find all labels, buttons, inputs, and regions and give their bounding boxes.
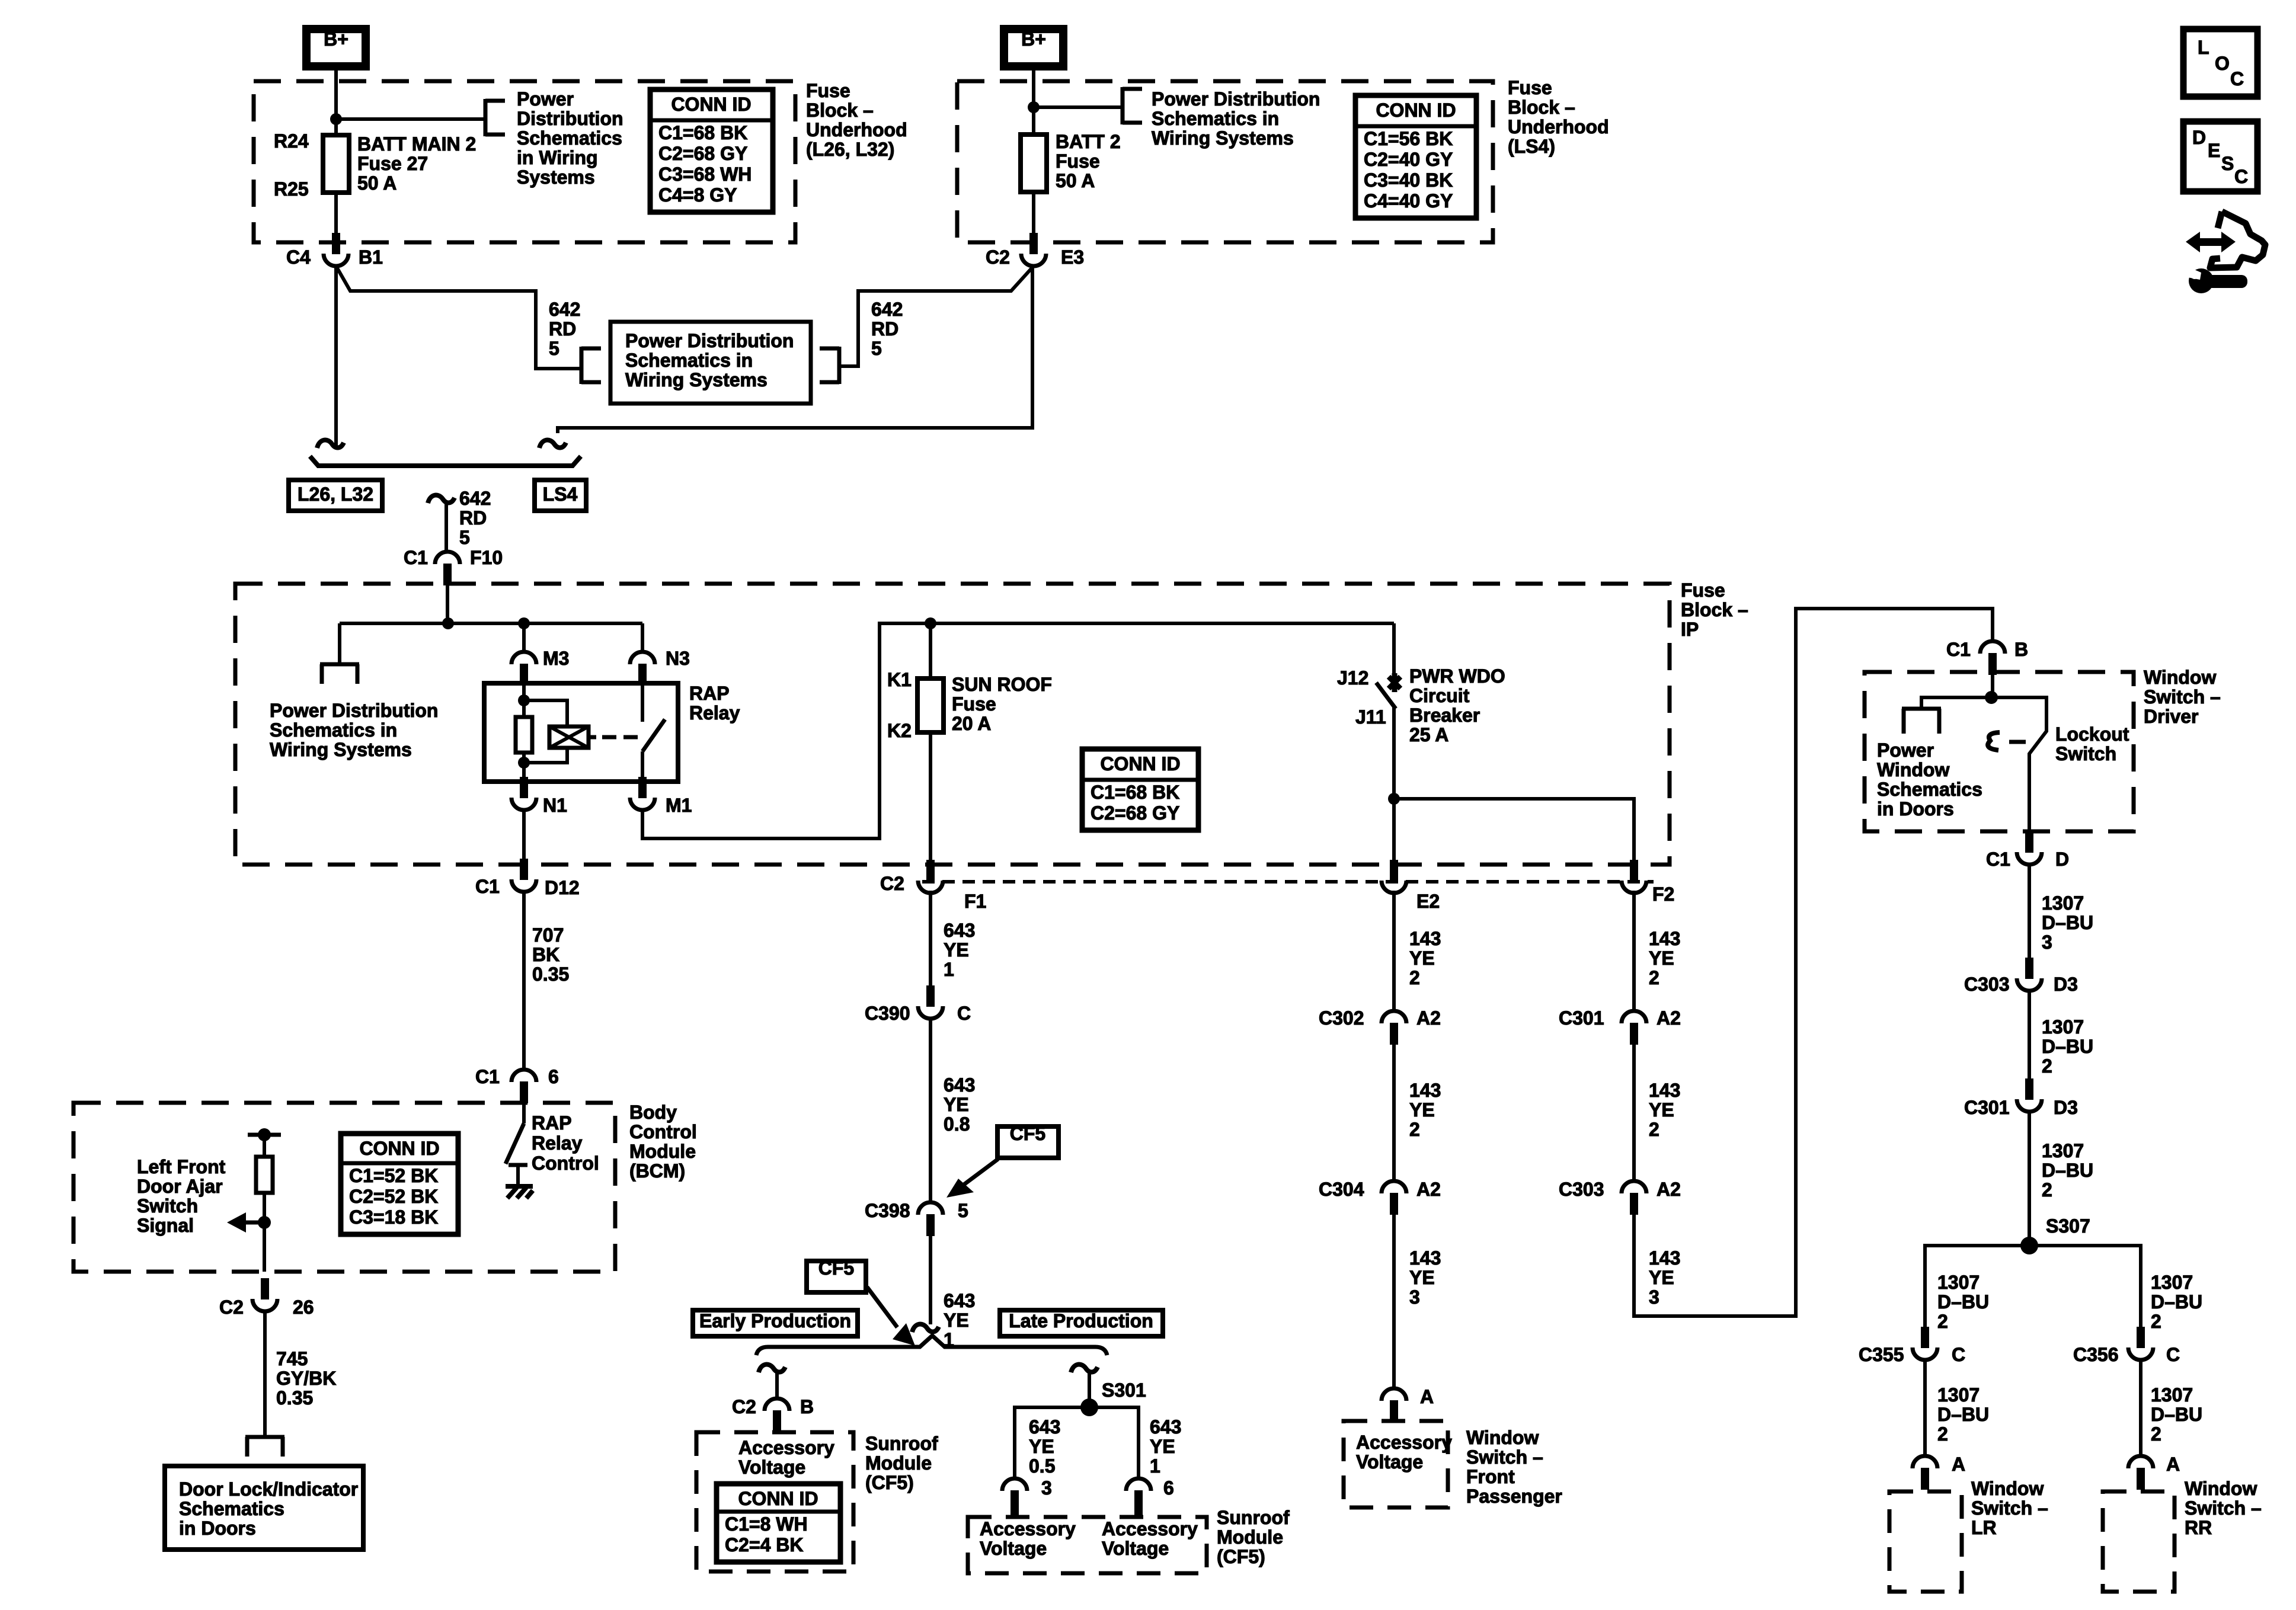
power symbol B+ (right) xyxy=(1004,29,1063,66)
svg-text:E2: E2 xyxy=(1416,891,1440,912)
svg-text:A2: A2 xyxy=(1657,1007,1681,1029)
svg-text:643: 643 xyxy=(1029,1416,1060,1438)
svg-text:Switch –: Switch – xyxy=(1466,1446,1543,1468)
svg-text:RAP: RAP xyxy=(689,683,730,704)
window switch RR dashed box xyxy=(2103,1491,2175,1592)
svg-text:CONN ID: CONN ID xyxy=(1376,100,1456,121)
svg-text:L: L xyxy=(2198,37,2209,58)
relay coil wire xyxy=(522,683,526,719)
connector C1 / D12 xyxy=(520,859,528,880)
svg-text:C303: C303 xyxy=(1559,1179,1604,1200)
svg-text:K2: K2 xyxy=(887,720,912,741)
harness hook (late branch) xyxy=(1071,1365,1098,1372)
svg-text:YE: YE xyxy=(1409,1099,1435,1121)
connector pin A (LR) xyxy=(1913,1456,1937,1468)
wire 745 GY/BK xyxy=(263,1310,267,1435)
svg-text:3: 3 xyxy=(1409,1286,1420,1308)
svg-text:Window: Window xyxy=(1877,759,1949,780)
connector C1 / B xyxy=(1980,641,2005,654)
svg-text:Window: Window xyxy=(1971,1478,2044,1499)
svg-text:C: C xyxy=(1952,1344,1965,1365)
svg-text:Schematics: Schematics xyxy=(1877,779,1982,800)
svg-text:RD: RD xyxy=(459,507,487,529)
svg-text:RAP: RAP xyxy=(532,1112,572,1134)
svg-text:Sunroof: Sunroof xyxy=(865,1433,938,1454)
wire C398 to production split xyxy=(929,1236,932,1324)
svg-text:1307: 1307 xyxy=(2042,892,2084,914)
wire C356 to RR switch xyxy=(2139,1359,2142,1456)
svg-text:1: 1 xyxy=(944,959,954,980)
svg-text:Accessory: Accessory xyxy=(1356,1432,1452,1453)
wire M1 to right IP bus xyxy=(642,623,1394,838)
svg-text:C3=68 WH: C3=68 WH xyxy=(658,164,752,185)
svg-text:S301: S301 xyxy=(1102,1379,1146,1401)
svg-text:(LS4): (LS4) xyxy=(1508,136,1555,157)
svg-text:Block –: Block – xyxy=(1681,599,1748,620)
navigation icon (wrench) xyxy=(2189,268,2214,293)
wire C304 to window switch front passenger xyxy=(1392,1215,1396,1388)
svg-text:Power Distribution: Power Distribution xyxy=(1152,88,1320,110)
lockout switch xyxy=(1991,697,2046,830)
svg-text:C: C xyxy=(2166,1344,2180,1365)
wire N1 to C1/D12 xyxy=(522,809,526,860)
fuse SUN ROOF 20A xyxy=(917,678,944,732)
svg-text:A2: A2 xyxy=(1416,1007,1441,1029)
relay mechanical link dashes xyxy=(602,735,616,740)
svg-text:2: 2 xyxy=(2042,1055,2052,1077)
svg-text:B1: B1 xyxy=(359,247,383,268)
svg-text:C2=40 GY: C2=40 GY xyxy=(1364,149,1453,170)
connector M1 xyxy=(638,777,647,798)
wire fuse to C4 xyxy=(334,193,338,244)
svg-text:2: 2 xyxy=(2151,1423,2161,1445)
svg-text:Schematics in: Schematics in xyxy=(1152,108,1279,129)
connector C4 / B1 xyxy=(332,233,340,254)
connector C398 / 5 xyxy=(918,1202,943,1215)
BCM CONN ID table xyxy=(341,1134,458,1234)
circuit breaker blade xyxy=(1376,683,1396,709)
svg-text:C1: C1 xyxy=(475,1066,500,1087)
svg-text:RD: RD xyxy=(549,318,576,340)
svg-text:2: 2 xyxy=(1937,1423,1948,1445)
navigation icon (double arrow) xyxy=(2198,238,2224,246)
svg-text:F1: F1 xyxy=(964,891,986,912)
svg-text:C1=68 BK: C1=68 BK xyxy=(658,122,747,143)
svg-text:C2: C2 xyxy=(732,1396,756,1417)
svg-text:143: 143 xyxy=(1649,1080,1680,1101)
power symbol B+ (left) xyxy=(306,29,366,66)
svg-text:1307: 1307 xyxy=(1937,1384,1980,1406)
svg-text:CF5: CF5 xyxy=(1010,1123,1045,1144)
svg-text:Fuse: Fuse xyxy=(1681,580,1725,601)
svg-text:O: O xyxy=(2215,53,2230,74)
node junction below B+ left xyxy=(330,113,342,125)
svg-text:6: 6 xyxy=(548,1066,559,1087)
svg-text:Accessory: Accessory xyxy=(1102,1518,1198,1539)
arrow left front door ajar switch signal xyxy=(244,1221,264,1225)
svg-text:2: 2 xyxy=(2151,1311,2161,1332)
svg-text:M3: M3 xyxy=(543,648,569,669)
svg-text:1307: 1307 xyxy=(2042,1016,2084,1038)
sunroof module (CF5) dashed box (early) xyxy=(696,1432,853,1571)
fuse block underhood (L26,L32) dashed box xyxy=(254,81,795,242)
svg-text:C390: C390 xyxy=(865,1003,910,1024)
relay resistor xyxy=(516,717,532,753)
svg-text:Power Distribution: Power Distribution xyxy=(625,330,794,351)
svg-text:LS4: LS4 xyxy=(543,484,578,505)
svg-text:2: 2 xyxy=(1649,1119,1659,1140)
svg-text:Front: Front xyxy=(1466,1466,1515,1487)
svg-text:A2: A2 xyxy=(1657,1179,1681,1200)
svg-text:D3: D3 xyxy=(2054,974,2078,995)
svg-text:143: 143 xyxy=(1649,928,1680,949)
wire C301 to C303 xyxy=(1632,1045,1636,1181)
svg-text:F2: F2 xyxy=(1652,884,1674,905)
svg-text:J11: J11 xyxy=(1355,706,1386,728)
svg-text:Lockout: Lockout xyxy=(2055,724,2129,745)
svg-text:IP: IP xyxy=(1681,619,1699,640)
connector pin A (front passenger) xyxy=(1382,1388,1406,1401)
svg-text:Left Front: Left Front xyxy=(137,1156,226,1177)
connector C2 / F1 xyxy=(926,860,935,881)
svg-text:143: 143 xyxy=(1409,1080,1441,1101)
bracket into power distribution box (left) xyxy=(580,347,584,384)
svg-text:5: 5 xyxy=(871,338,882,359)
svg-text:A2: A2 xyxy=(1416,1179,1441,1200)
svg-text:SUN ROOF: SUN ROOF xyxy=(952,674,1052,695)
svg-text:C1=56 BK: C1=56 BK xyxy=(1364,128,1453,149)
svg-text:RD: RD xyxy=(871,318,898,340)
svg-text:YE: YE xyxy=(1649,1267,1674,1288)
svg-text:in Wiring: in Wiring xyxy=(517,147,598,168)
harness hook (center bottom) xyxy=(912,1324,939,1332)
svg-text:C2=68 GY: C2=68 GY xyxy=(1091,802,1179,824)
svg-text:3: 3 xyxy=(1041,1477,1052,1499)
wire fuse to C2 (right) xyxy=(1032,192,1035,244)
svg-text:R24: R24 xyxy=(274,130,309,152)
bracket to Power Distribution Schematics (left underhood) xyxy=(484,99,488,136)
BCM dashed box xyxy=(73,1103,615,1272)
harness hook (output) xyxy=(428,495,455,503)
bracket into door lock schematics xyxy=(245,1435,284,1439)
svg-text:Voltage: Voltage xyxy=(1356,1451,1423,1473)
svg-text:S307: S307 xyxy=(2046,1215,2090,1237)
svg-text:CONN ID: CONN ID xyxy=(671,94,751,115)
svg-text:K1: K1 xyxy=(887,669,912,690)
svg-text:C4=8 GY: C4=8 GY xyxy=(658,184,737,206)
svg-text:D–BU: D–BU xyxy=(2042,1036,2093,1057)
svg-text:Door Ajar: Door Ajar xyxy=(137,1176,223,1197)
CF5 arrow (upper) xyxy=(963,1159,998,1185)
bracket to Power Distribution Schematics (right underhood) xyxy=(1121,87,1125,124)
svg-text:CF5: CF5 xyxy=(818,1257,854,1279)
svg-text:C1: C1 xyxy=(475,876,500,897)
connector M3 xyxy=(511,652,536,664)
accessory voltage dashed box (front passenger) xyxy=(1344,1421,1448,1507)
wire C2/E3 down and left to harness xyxy=(558,266,1032,433)
connector E2 xyxy=(1390,860,1398,881)
svg-text:2: 2 xyxy=(1409,967,1420,988)
fuse block IP dashed box xyxy=(235,584,1670,865)
svg-text:Wiring Systems: Wiring Systems xyxy=(1152,127,1294,149)
wire F1 to C390 xyxy=(929,891,932,986)
wire bus to SUN ROOF fuse xyxy=(929,623,932,678)
svg-text:Distribution: Distribution xyxy=(517,108,623,129)
ground (BCM) xyxy=(506,1186,533,1198)
svg-text:Sunroof: Sunroof xyxy=(1217,1507,1290,1528)
wire bus to circuit breaker xyxy=(1392,623,1396,677)
svg-text:Module: Module xyxy=(629,1141,696,1162)
svg-text:B: B xyxy=(2014,639,2028,660)
svg-text:C355: C355 xyxy=(1859,1344,1904,1365)
svg-text:C2=52 BK: C2=52 BK xyxy=(349,1186,438,1207)
CONN ID table (underhood left) xyxy=(650,89,773,212)
svg-text:2: 2 xyxy=(2042,1179,2052,1201)
svg-text:Door Lock/Indicator: Door Lock/Indicator xyxy=(179,1478,358,1500)
svg-text:3: 3 xyxy=(1649,1286,1659,1308)
svg-text:Switch –: Switch – xyxy=(2185,1497,2262,1519)
connector C303 / D3 xyxy=(2025,958,2033,979)
svg-text:Fuse: Fuse xyxy=(1056,151,1100,172)
connector C356 / C xyxy=(2137,1327,2145,1348)
svg-text:R25: R25 xyxy=(274,178,309,200)
harness hook (left) xyxy=(317,440,344,448)
wire B+ to fuse (right) xyxy=(1032,71,1035,135)
svg-text:Relay: Relay xyxy=(689,702,740,724)
svg-text:YE: YE xyxy=(1409,948,1435,969)
bracket to power window schematics xyxy=(1902,707,1941,711)
circuit breaker PWR WDO 25A contact xyxy=(1389,673,1400,692)
svg-text:2: 2 xyxy=(1649,967,1659,988)
svg-text:S: S xyxy=(2221,153,2234,174)
wire B+ to fuse xyxy=(334,71,338,135)
svg-text:GY/BK: GY/BK xyxy=(276,1368,336,1389)
svg-text:Voltage: Voltage xyxy=(980,1538,1047,1559)
wire C4/B1 to power distribution box xyxy=(336,266,580,369)
harness label box LS4 xyxy=(535,480,586,511)
svg-text:D–BU: D–BU xyxy=(1937,1404,1989,1425)
svg-text:Switch: Switch xyxy=(2055,743,2116,764)
svg-text:2: 2 xyxy=(1409,1119,1420,1140)
svg-text:YE: YE xyxy=(1409,1267,1435,1288)
svg-text:Schematics: Schematics xyxy=(179,1498,284,1519)
svg-text:Fuse: Fuse xyxy=(1508,77,1552,98)
svg-text:Body: Body xyxy=(629,1102,677,1123)
svg-text:J12: J12 xyxy=(1337,667,1368,689)
svg-text:C301: C301 xyxy=(1964,1097,2010,1118)
svg-text:LR: LR xyxy=(1971,1517,1997,1538)
connector C355 / C xyxy=(1921,1327,1929,1348)
door lock/indicator schematics box xyxy=(165,1466,363,1550)
IP CONN ID table xyxy=(1082,749,1198,830)
fuse block underhood (LS4) dashed box xyxy=(957,81,1493,242)
svg-text:0.35: 0.35 xyxy=(532,964,569,985)
svg-text:CONN ID: CONN ID xyxy=(359,1138,439,1159)
connector C2 / B xyxy=(765,1398,789,1411)
svg-text:M1: M1 xyxy=(666,795,692,816)
wire to S301 xyxy=(1088,1372,1091,1407)
svg-text:Fuse 27: Fuse 27 xyxy=(357,153,428,174)
svg-text:Block –: Block – xyxy=(806,100,874,121)
svg-text:Window: Window xyxy=(2185,1478,2257,1499)
harness hook (right) xyxy=(539,440,566,448)
connector C304 / A2 xyxy=(1382,1181,1406,1193)
svg-text:Switch –: Switch – xyxy=(1971,1497,2048,1519)
relay coil branch xyxy=(524,700,567,726)
svg-text:(CF5): (CF5) xyxy=(1217,1546,1265,1567)
wire F10 into IP fuse block xyxy=(446,584,449,623)
svg-text:Power: Power xyxy=(1877,740,1934,761)
CF5 label box (lower) xyxy=(807,1261,866,1292)
svg-text:D–BU: D–BU xyxy=(2151,1404,2202,1425)
door ajar signal rail xyxy=(248,1133,281,1137)
svg-text:143: 143 xyxy=(1649,1247,1680,1269)
S307 branch wires xyxy=(1925,1246,2141,1327)
svg-text:0.35: 0.35 xyxy=(276,1387,313,1409)
svg-text:(CF5): (CF5) xyxy=(865,1472,914,1493)
svg-text:642: 642 xyxy=(871,299,903,320)
svg-text:L26, L32: L26, L32 xyxy=(298,484,373,505)
wire F2 to C301 xyxy=(1632,891,1636,1011)
wire to power window schematics bracket xyxy=(1921,697,1991,709)
svg-text:Schematics: Schematics xyxy=(517,127,622,149)
svg-text:Driver: Driver xyxy=(2144,706,2199,727)
wire 1307 D-BU 3 xyxy=(2028,863,2031,958)
svg-text:C3=40 BK: C3=40 BK xyxy=(1364,169,1453,191)
relay switch xyxy=(641,683,644,722)
DESC icon box xyxy=(2183,121,2257,191)
connector C2 / 26 xyxy=(261,1278,269,1299)
svg-text:D12: D12 xyxy=(545,877,580,898)
svg-text:1307: 1307 xyxy=(2151,1272,2193,1293)
harness hook (early branch) xyxy=(759,1365,785,1372)
svg-text:D–BU: D–BU xyxy=(2151,1291,2202,1313)
fuse BATT MAIN 2 Fuse 27 50A xyxy=(323,135,349,193)
svg-text:N1: N1 xyxy=(543,795,567,816)
svg-text:Power: Power xyxy=(517,88,574,110)
connector pin 3 xyxy=(1002,1478,1027,1491)
window switch driver dashed box xyxy=(1865,672,2134,831)
svg-text:C: C xyxy=(2230,68,2244,89)
svg-text:Fuse: Fuse xyxy=(952,693,996,715)
svg-text:(BCM): (BCM) xyxy=(629,1160,685,1182)
svg-text:BATT MAIN 2: BATT MAIN 2 xyxy=(357,133,476,155)
svg-text:0.8: 0.8 xyxy=(944,1113,970,1135)
RAP relay control switch xyxy=(522,1102,526,1124)
wire C301 to S307 xyxy=(2028,1110,2031,1246)
window switch LR dashed box xyxy=(1889,1491,1962,1592)
svg-text:Late Production: Late Production xyxy=(1009,1310,1153,1331)
svg-text:0.5: 0.5 xyxy=(1029,1455,1055,1477)
CONN ID table (underhood right) xyxy=(1355,95,1476,218)
svg-text:C1: C1 xyxy=(404,547,428,568)
svg-text:C4: C4 xyxy=(286,247,311,268)
svg-text:Early Production: Early Production xyxy=(699,1310,851,1331)
connector C301 / A2 xyxy=(1622,1011,1646,1023)
svg-text:D–BU: D–BU xyxy=(1937,1291,1989,1313)
fuse BATT 2 Fuse 50A xyxy=(1021,135,1047,192)
svg-text:BATT 2: BATT 2 xyxy=(1056,131,1121,152)
splice S307 xyxy=(2020,1237,2038,1254)
svg-text:A: A xyxy=(2166,1454,2180,1475)
svg-text:Accessory: Accessory xyxy=(980,1518,1076,1539)
connector F2 xyxy=(1630,860,1638,881)
svg-text:D–BU: D–BU xyxy=(2042,1160,2093,1181)
svg-text:1307: 1307 xyxy=(2042,1140,2084,1161)
connector C303 / A2 xyxy=(1622,1181,1646,1193)
connector C2 / E3 xyxy=(1029,233,1038,254)
svg-text:YE: YE xyxy=(1649,1099,1674,1121)
wire C390 to C398 xyxy=(929,1017,932,1202)
svg-text:E3: E3 xyxy=(1061,247,1084,268)
node junction below B+ right xyxy=(1028,101,1040,113)
svg-text:Window: Window xyxy=(2144,667,2216,688)
svg-text:C: C xyxy=(2234,166,2248,187)
svg-text:643: 643 xyxy=(944,1290,975,1311)
svg-text:C1: C1 xyxy=(1946,639,1971,660)
relay coil (crossed box) xyxy=(549,726,589,748)
svg-text:Power Distribution: Power Distribution xyxy=(270,700,438,721)
svg-text:Circuit: Circuit xyxy=(1409,685,1470,706)
svg-text:in Doors: in Doors xyxy=(1877,798,1954,820)
svg-text:Module: Module xyxy=(865,1452,932,1474)
svg-text:2: 2 xyxy=(1937,1311,1948,1332)
S301 branch wires xyxy=(1015,1407,1139,1478)
production split brace xyxy=(756,1336,1107,1355)
svg-text:Schematics in: Schematics in xyxy=(625,350,753,371)
wire C2/E3 to power distribution box xyxy=(841,266,1034,366)
connector pin A (RR) xyxy=(2128,1456,2153,1468)
wire bus to N3 xyxy=(641,623,644,652)
svg-text:50 A: 50 A xyxy=(1056,170,1095,191)
svg-text:C356: C356 xyxy=(2073,1344,2119,1365)
wire C303 to window switch driver feed xyxy=(1634,609,1993,1316)
svg-text:D–BU: D–BU xyxy=(2042,912,2093,933)
CF5 label box (upper) xyxy=(997,1126,1059,1158)
svg-text:PWR WDO: PWR WDO xyxy=(1409,665,1505,687)
svg-text:RR: RR xyxy=(2185,1517,2212,1538)
svg-text:Wiring Systems: Wiring Systems xyxy=(625,369,768,391)
connector C301 / D3 xyxy=(2025,1078,2033,1100)
svg-text:C2=68 GY: C2=68 GY xyxy=(658,143,747,164)
connector C1 / D xyxy=(2025,831,2033,853)
svg-text:Breaker: Breaker xyxy=(1409,705,1480,726)
svg-text:Control: Control xyxy=(532,1153,599,1174)
svg-text:Voltage: Voltage xyxy=(738,1457,805,1478)
svg-text:C2: C2 xyxy=(880,873,904,894)
svg-text:D3: D3 xyxy=(2054,1097,2078,1118)
svg-text:CONN ID: CONN ID xyxy=(738,1488,818,1509)
Early Production label box xyxy=(693,1310,858,1336)
svg-text:Schematics in: Schematics in xyxy=(270,719,397,741)
svg-text:5: 5 xyxy=(958,1200,968,1221)
svg-text:Voltage: Voltage xyxy=(1102,1538,1169,1559)
navigation icon (panel outline) xyxy=(2210,212,2265,268)
wire breaker junction to F2 xyxy=(1394,799,1634,862)
svg-text:642: 642 xyxy=(549,299,580,320)
svg-text:26: 26 xyxy=(293,1297,314,1318)
svg-text:Block –: Block – xyxy=(1508,97,1575,118)
svg-text:C2=4 BK: C2=4 BK xyxy=(725,1534,804,1555)
svg-text:Passenger: Passenger xyxy=(1466,1486,1562,1507)
svg-text:BK: BK xyxy=(532,944,559,965)
bracket into power distribution box (right) xyxy=(837,347,842,384)
svg-text:Window: Window xyxy=(1466,1427,1539,1448)
svg-text:(L26, L32): (L26, L32) xyxy=(806,139,894,160)
splice S301 xyxy=(1080,1398,1098,1416)
svg-text:C303: C303 xyxy=(1964,974,2010,995)
svg-text:143: 143 xyxy=(1409,928,1441,949)
